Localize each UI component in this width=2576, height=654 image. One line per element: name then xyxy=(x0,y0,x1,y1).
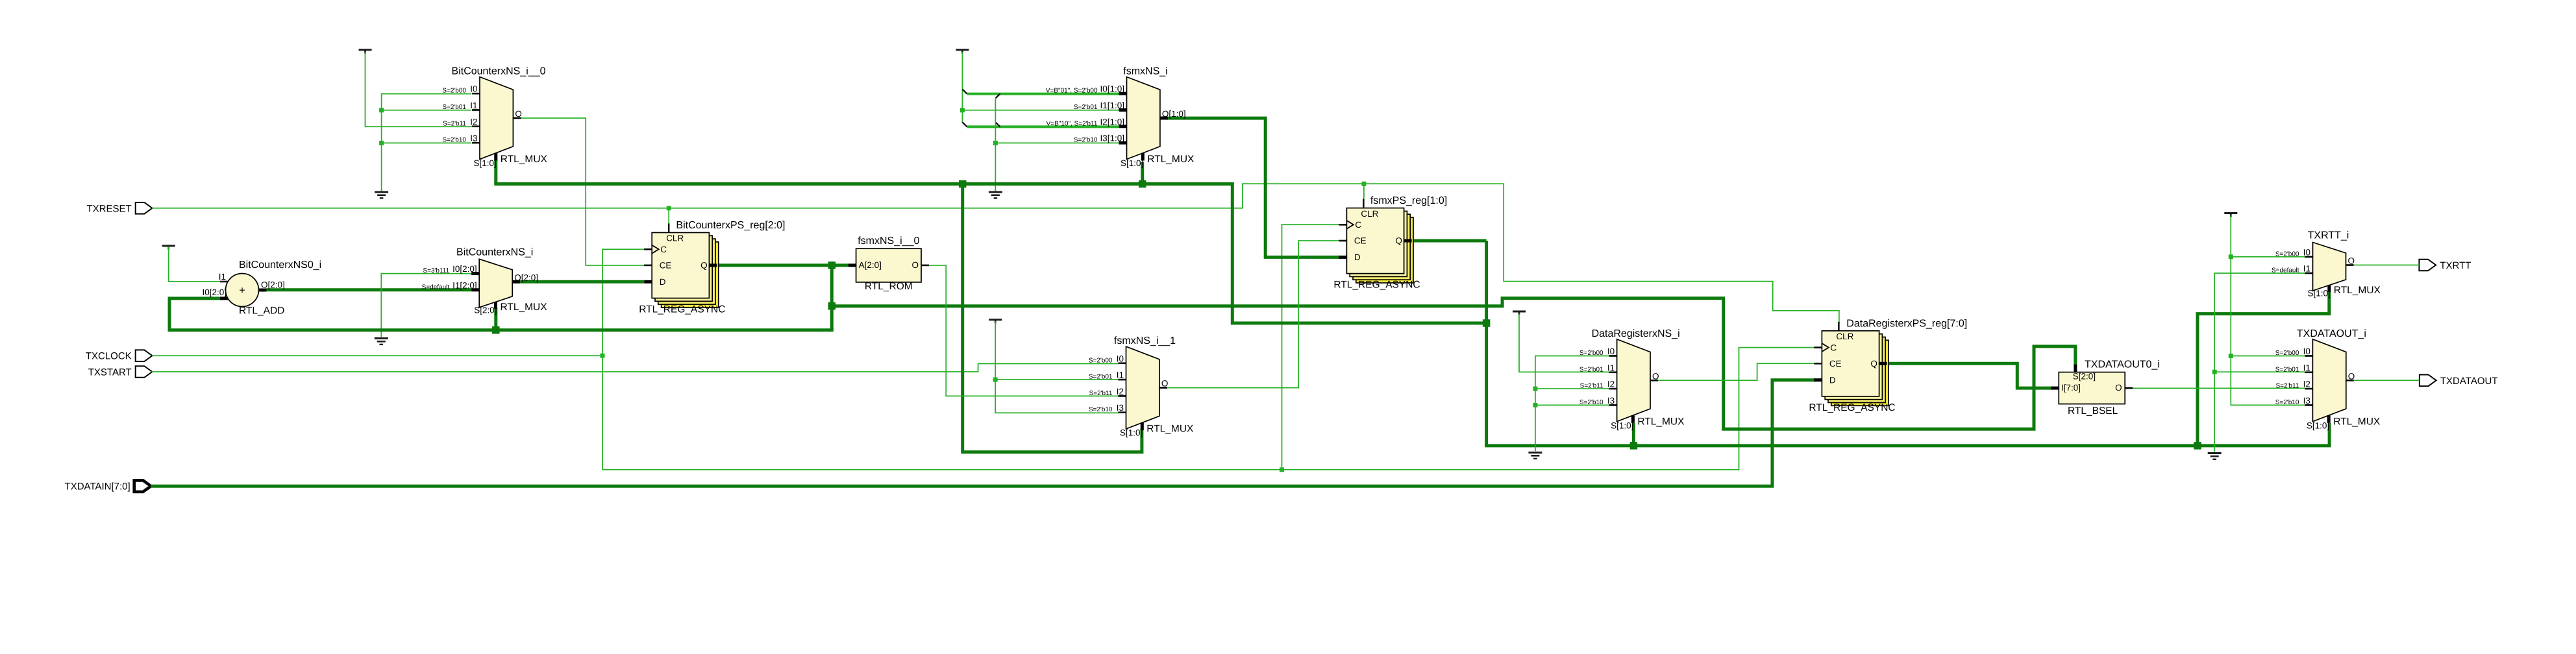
svg-text:C: C xyxy=(660,245,667,254)
register fsmxPS_reg[1:0] (RTL_REG_ASYNC) xyxy=(1333,195,1447,291)
svg-text:RTL_MUX: RTL_MUX xyxy=(1147,154,1195,165)
mux BitCounterxNS_i__0 (RTL_MUX) xyxy=(442,66,547,169)
svg-text:C: C xyxy=(1355,220,1361,230)
svg-text:+: + xyxy=(239,285,245,297)
svg-text:D: D xyxy=(1829,375,1836,385)
svg-text:D: D xyxy=(1354,252,1361,262)
svg-text:I1[1:0]: I1[1:0] xyxy=(1100,101,1124,110)
svg-text:S=2'b00: S=2'b00 xyxy=(1579,350,1604,357)
wire consts to BitCounterxNS_i__0 inputs xyxy=(365,53,472,191)
svg-text:DataRegisterxNS_i: DataRegisterxNS_i xyxy=(1592,328,1680,339)
svg-text:I[7:0]: I[7:0] xyxy=(2061,383,2081,393)
svg-text:CLR: CLR xyxy=(1361,209,1378,219)
wire net TXDATAIN[7:0] xyxy=(153,380,1814,487)
svg-text:RTL_ROM: RTL_ROM xyxy=(865,281,913,292)
wire net fsmxNS1_out (fsmxNS_i__1 O to fsmxPS_reg CE) xyxy=(1167,241,1339,388)
wire consts to fsmxNS_i inputs xyxy=(960,53,1119,191)
power symbol (DataRegisterxNS_i const) xyxy=(1513,311,1526,315)
power symbol (RTL_ADD I1 const) xyxy=(162,246,175,250)
svg-text:RTL_MUX: RTL_MUX xyxy=(501,154,548,165)
wire net TXDATAOUT0 (RTL_BSEL O to TXDATAOUT_i I2) xyxy=(2133,387,2305,389)
svg-text:S=2'b11: S=2'b11 xyxy=(1089,390,1113,397)
svg-text:Q: Q xyxy=(700,261,708,271)
svg-text:O: O xyxy=(515,109,522,119)
svg-text:O: O xyxy=(2348,371,2355,381)
svg-text:O[2:0]: O[2:0] xyxy=(261,280,285,290)
svg-text:TXDATAOUT: TXDATAOUT xyxy=(2440,376,2498,387)
svg-text:RTL_BSEL: RTL_BSEL xyxy=(2068,406,2118,417)
wire net BitCounterxNS_CE (mux0 out to reg CE) xyxy=(521,118,644,265)
svg-text:S=2'b10: S=2'b10 xyxy=(1579,399,1604,406)
svg-text:I0: I0 xyxy=(470,84,477,94)
svg-text:TXCLOCK: TXCLOCK xyxy=(86,351,132,362)
adder BitCounterxNS0_i (RTL_ADD) xyxy=(202,260,321,317)
svg-text:S[1:0]: S[1:0] xyxy=(1120,428,1143,438)
svg-text:I1[2:0]: I1[2:0] xyxy=(452,280,477,290)
input port TXCLOCK xyxy=(86,350,153,361)
power symbol (fsmxNS_i__1 const) xyxy=(989,320,1002,324)
svg-text:S=2'b11: S=2'b11 xyxy=(2275,383,2299,390)
svg-text:RTL_MUX: RTL_MUX xyxy=(501,302,548,313)
svg-text:A[2:0]: A[2:0] xyxy=(859,260,882,270)
svg-text:S=default: S=default xyxy=(422,284,450,291)
wire net fsmxNS (fsmxNS_i out to fsmxPS_reg D) xyxy=(1168,118,1339,257)
svg-text:S=2'b10: S=2'b10 xyxy=(1074,137,1098,144)
wire const1 to RTL_ADD I1 xyxy=(169,247,220,282)
svg-text:CLR: CLR xyxy=(1836,332,1853,341)
mux DataRegisterxNS_i (RTL_MUX) xyxy=(1579,328,1685,431)
svg-text:BitCounterxPS_reg[2:0]: BitCounterxPS_reg[2:0] xyxy=(676,220,785,231)
svg-text:S=2'b01: S=2'b01 xyxy=(2275,366,2299,373)
svg-text:D: D xyxy=(660,277,666,287)
svg-text:S=2'b01: S=2'b01 xyxy=(1074,104,1098,111)
wire consts to TXRTT_i / TXDATAOUT_i inputs xyxy=(2212,216,2305,452)
svg-text:S=3'b111: S=3'b111 xyxy=(423,267,449,274)
svg-text:S=2'b00: S=2'b00 xyxy=(2275,250,2299,258)
svg-text:CE: CE xyxy=(660,261,672,271)
svg-text:I3: I3 xyxy=(1117,403,1124,413)
svg-text:S=2'b00: S=2'b00 xyxy=(442,88,466,95)
svg-text:O: O xyxy=(2115,383,2122,393)
power symbol (mux0 const) xyxy=(359,50,372,54)
wire consts to fsmxNS_i__1 I1/I3 xyxy=(993,322,1119,413)
svg-text:S=2'b10: S=2'b10 xyxy=(442,137,466,144)
svg-text:I2: I2 xyxy=(2303,380,2310,389)
mux fsmxNS_i__1 (RTL_MUX) xyxy=(1089,335,1194,438)
svg-text:V=B"10", S=2'b11: V=B"10", S=2'b11 xyxy=(1046,120,1098,127)
svg-text:CE: CE xyxy=(1354,236,1367,246)
svg-text:O: O xyxy=(1652,371,1659,381)
svg-text:S=2'b11: S=2'b11 xyxy=(1580,383,1604,390)
svg-text:I0: I0 xyxy=(1607,346,1615,356)
svg-text:I1: I1 xyxy=(470,101,477,110)
svg-text:I0[1:0]: I0[1:0] xyxy=(1100,84,1124,94)
svg-text:CLR: CLR xyxy=(666,234,684,243)
svg-text:TXDATAIN[7:0]: TXDATAIN[7:0] xyxy=(65,481,130,492)
svg-text:RTL_REG_ASYNC: RTL_REG_ASYNC xyxy=(1333,280,1420,291)
rom fsmxNS_i__0 (RTL_ROM) xyxy=(848,236,929,292)
svg-text:S[2:0]: S[2:0] xyxy=(474,305,497,315)
svg-text:I3: I3 xyxy=(1607,396,1615,406)
wire net TXCLOCK xyxy=(152,224,1814,472)
svg-text:S=2'b00: S=2'b00 xyxy=(2275,350,2299,357)
svg-text:S=2'b01: S=2'b01 xyxy=(442,104,466,111)
svg-text:O[2:0]: O[2:0] xyxy=(514,272,538,282)
wire net BitCounterxNS0 (adder out to mux I1) xyxy=(267,288,472,291)
wire consts to DataRegisterxNS_i inputs xyxy=(1519,315,1609,451)
ground symbol (BitCounterxNS_i I0 const) xyxy=(375,339,388,345)
svg-text:TXDATAOUT_i: TXDATAOUT_i xyxy=(2297,328,2366,339)
svg-text:DataRegisterxPS_reg[7:0]: DataRegisterxPS_reg[7:0] xyxy=(1846,318,1967,329)
bit-select TXDATAOUT0_i (RTL_BSEL) xyxy=(2051,359,2160,417)
power symbol (fsmxNS_i const) xyxy=(956,50,969,54)
svg-text:fsmxNS_i__0: fsmxNS_i__0 xyxy=(858,236,919,247)
svg-text:S=2'b10: S=2'b10 xyxy=(2275,399,2299,406)
svg-text:I1: I1 xyxy=(1607,363,1615,372)
svg-text:TXRTT_i: TXRTT_i xyxy=(2308,230,2349,241)
wire net TXSTART xyxy=(152,364,1118,372)
output port TXDATAOUT xyxy=(2420,375,2498,387)
svg-text:I0: I0 xyxy=(1117,354,1124,363)
svg-text:I2: I2 xyxy=(1117,387,1124,396)
svg-text:S=2'b11: S=2'b11 xyxy=(443,120,466,127)
svg-text:RTL_MUX: RTL_MUX xyxy=(1146,424,1194,435)
input port TXDATAIN[7:0] xyxy=(65,480,151,492)
svg-text:I0[2:0]: I0[2:0] xyxy=(202,287,227,297)
svg-text:RTL_MUX: RTL_MUX xyxy=(2333,416,2381,427)
svg-text:S[1:0]: S[1:0] xyxy=(474,158,497,168)
svg-text:I1: I1 xyxy=(2303,363,2310,372)
svg-text:I2[1:0]: I2[1:0] xyxy=(1100,117,1124,127)
wire net DataRegisterxPS (reg Q to RTL_BSEL I) xyxy=(1887,363,2051,388)
svg-text:S=default: S=default xyxy=(2272,267,2299,274)
svg-text:O: O xyxy=(1161,379,1169,389)
svg-text:V=B"01", S=2'b00: V=B"01", S=2'b00 xyxy=(1046,88,1098,95)
wire const to BitCounterxNS_i I0 (ground) xyxy=(381,274,471,337)
svg-text:RTL_ADD: RTL_ADD xyxy=(239,306,284,317)
svg-text:RTL_REG_ASYNC: RTL_REG_ASYNC xyxy=(1809,402,1895,413)
svg-text:S=2'b01: S=2'b01 xyxy=(1579,366,1604,373)
power symbol (TXRTT_i/TXDATAOUT_i const) xyxy=(2224,213,2237,217)
svg-text:BitCounterxNS0_i: BitCounterxNS0_i xyxy=(239,260,321,271)
svg-text:I1: I1 xyxy=(219,272,226,282)
svg-text:I0: I0 xyxy=(2303,247,2310,257)
svg-text:TXRTT: TXRTT xyxy=(2440,260,2471,271)
svg-text:I0[2:0]: I0[2:0] xyxy=(452,264,477,274)
input port TXRESET xyxy=(87,202,153,214)
ground symbol (mux0 const) xyxy=(375,192,388,198)
wire net ROMout (fsmxNS_i__0 O to fsmxNS_i__1 I2) xyxy=(929,265,1119,396)
svg-text:S[1:0]: S[1:0] xyxy=(2307,420,2329,430)
svg-text:I3: I3 xyxy=(2303,396,2310,406)
svg-text:I3: I3 xyxy=(470,134,477,143)
svg-text:I0: I0 xyxy=(2303,346,2310,356)
register BitCounterxPS_reg[2:0] (RTL_REG_ASYNC) xyxy=(639,220,785,315)
wire net BitCounterxPS (reg Q feedback) xyxy=(169,261,2075,429)
ground symbol (DataRegisterxNS_i const) xyxy=(1528,453,1542,459)
ground symbol (TXRTT_i/TXDATAOUT_i const) xyxy=(2208,454,2222,459)
svg-text:I1: I1 xyxy=(1117,370,1124,380)
svg-text:I3[1:0]: I3[1:0] xyxy=(1100,134,1124,143)
wire net BitCounterxNS (mux out to reg D) xyxy=(520,280,644,284)
svg-text:BitCounterxNS_i: BitCounterxNS_i xyxy=(456,247,533,258)
svg-text:C: C xyxy=(1830,343,1837,352)
wire net TXDATAOUT_out xyxy=(2354,380,2420,381)
svg-text:S[2:0]: S[2:0] xyxy=(2073,372,2096,381)
svg-text:RTL_REG_ASYNC: RTL_REG_ASYNC xyxy=(639,304,725,315)
mux fsmxNS_i (RTL_MUX) xyxy=(1046,66,1195,169)
wire net TXRTT_out xyxy=(2354,265,2420,266)
wire net DataRegNS_out (DataRegisterxNS_i O to DataRegisterxPS_reg CE) xyxy=(1658,363,1814,380)
input port TXSTART xyxy=(88,366,153,378)
svg-text:I1: I1 xyxy=(2303,264,2310,274)
svg-text:O: O xyxy=(911,260,919,270)
svg-text:S=2'b10: S=2'b10 xyxy=(1089,406,1113,413)
mux TXDATAOUT_i (RTL_MUX) xyxy=(2275,328,2381,431)
svg-text:CE: CE xyxy=(1829,359,1842,369)
register DataRegisterxPS_reg[7:0] (RTL_REG_ASYNC) xyxy=(1809,318,1967,413)
svg-text:RTL_MUX: RTL_MUX xyxy=(1637,416,1685,427)
svg-text:TXDATAOUT0_i: TXDATAOUT0_i xyxy=(2085,359,2160,370)
svg-text:fsmxNS_i__1: fsmxNS_i__1 xyxy=(1114,335,1176,346)
svg-text:fsmxNS_i: fsmxNS_i xyxy=(1123,66,1167,77)
wire net TXRESET xyxy=(152,182,1839,322)
svg-text:RTL_MUX: RTL_MUX xyxy=(2334,285,2381,296)
svg-text:S[1:0]: S[1:0] xyxy=(1121,158,1143,168)
svg-text:I2: I2 xyxy=(1607,380,1615,389)
svg-text:Q: Q xyxy=(1870,359,1877,369)
svg-text:O: O xyxy=(2348,256,2355,266)
svg-text:S=2'b00: S=2'b00 xyxy=(1089,357,1113,364)
svg-text:S=2'b01: S=2'b01 xyxy=(1089,374,1113,381)
wire net fsmxPS (state feedback) xyxy=(496,160,2329,452)
svg-text:S[1:0]: S[1:0] xyxy=(2308,289,2331,298)
svg-text:Q: Q xyxy=(1395,236,1402,246)
svg-text:I2: I2 xyxy=(470,117,477,127)
svg-text:TXRESET: TXRESET xyxy=(87,203,132,214)
ground symbol (fsmxNS_i const) xyxy=(989,192,1002,198)
svg-text:S[1:0]: S[1:0] xyxy=(1611,420,1633,430)
svg-text:BitCounterxNS_i__0: BitCounterxNS_i__0 xyxy=(452,66,546,77)
svg-text:TXSTART: TXSTART xyxy=(88,367,132,378)
mux BitCounterxNS_i (RTL_MUX) xyxy=(422,247,548,315)
mux TXRTT_i (RTL_MUX) xyxy=(2272,230,2381,298)
svg-text:fsmxPS_reg[1:0]: fsmxPS_reg[1:0] xyxy=(1370,195,1447,206)
output port TXRTT xyxy=(2419,260,2471,271)
svg-text:O[1:0]: O[1:0] xyxy=(1162,109,1186,119)
